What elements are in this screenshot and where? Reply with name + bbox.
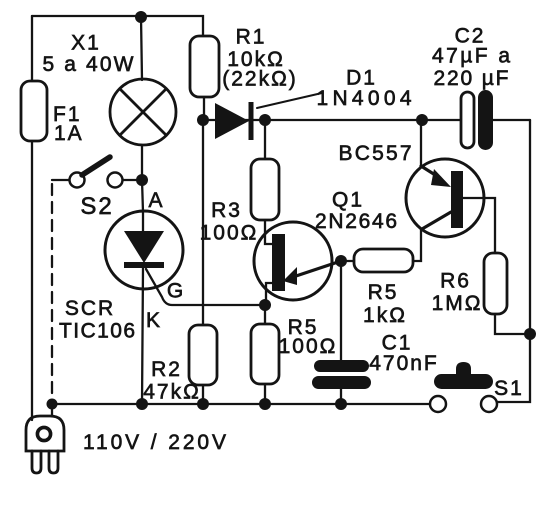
node Q1 B1 junction: [259, 299, 271, 311]
svg-text:X1: X1: [71, 32, 101, 55]
node BC557 emitter junction: [416, 114, 428, 126]
wire R2 bottom lead: [202, 385, 204, 405]
wire R5b bottom lead: [264, 384, 266, 405]
resistor R3: [251, 159, 279, 220]
node Q1 emitter junction: [335, 255, 347, 267]
svg-text:5 a 40W: 5 a 40W: [43, 53, 136, 76]
wire lamp top lead: [141, 17, 142, 80]
svg-text:(22kΩ): (22kΩ): [222, 68, 298, 91]
svg-text:BC557: BC557: [339, 142, 414, 165]
node D1 anode: [197, 114, 209, 126]
fuse F1: [21, 81, 47, 141]
svg-text:2N2646: 2N2646: [315, 210, 399, 233]
svg-text:R5: R5: [368, 281, 399, 304]
wire top rail: [32, 16, 203, 36]
resistor R6: [484, 253, 507, 314]
wire plus rail to right rail: [493, 119, 530, 121]
node bus SCR: [136, 398, 148, 410]
node top junction: [135, 11, 147, 23]
wire BC557 base lead: [463, 198, 495, 253]
wire right rail: [497, 120, 530, 402]
wire left rail lower: [31, 141, 33, 420]
resistor R1: [190, 36, 219, 97]
svg-text:G: G: [167, 280, 185, 303]
wire C1 top lead: [340, 261, 342, 361]
wire R5b top lead: [264, 305, 266, 324]
node D1 cathode: [259, 114, 271, 126]
svg-text:R3: R3: [211, 199, 242, 222]
wire lamp bottom lead: [141, 145, 143, 180]
svg-text:K: K: [146, 309, 162, 332]
node bus plug: [47, 399, 58, 410]
wire R1 to D1: [203, 97, 205, 120]
capacitor C1: [312, 360, 371, 389]
capacitor C2: [461, 90, 493, 150]
svg-text:100Ω: 100Ω: [279, 335, 338, 358]
svg-text:S2: S2: [80, 193, 113, 220]
svg-text:1kΩ: 1kΩ: [363, 304, 407, 327]
wire Q1 B1 lead: [266, 283, 272, 305]
wire SCR gate: [146, 269, 264, 305]
switch S2: [52, 157, 136, 188]
wire SCR cathode lead: [142, 268, 143, 405]
svg-text:TIC106: TIC106: [59, 320, 137, 343]
wire bottom bus: [52, 403, 430, 405]
svg-text:220 µF: 220 µF: [434, 67, 511, 90]
svg-text:1A: 1A: [54, 122, 84, 145]
wire R5 to BC557 collector: [413, 229, 421, 261]
wire SCR anode lead: [142, 180, 143, 212]
transistor BC557: [406, 159, 484, 237]
svg-text:1MΩ: 1MΩ: [432, 292, 483, 315]
node bus C1: [335, 398, 347, 410]
svg-text:47kΩ: 47kΩ: [143, 381, 201, 404]
svg-text:47µF a: 47µF a: [432, 45, 512, 68]
svg-text:R1: R1: [236, 26, 267, 49]
lamp X1: [110, 79, 176, 145]
svg-text:A: A: [148, 189, 164, 212]
svg-text:Q1: Q1: [332, 189, 364, 212]
svg-text:470nF: 470nF: [369, 352, 439, 375]
svg-text:R6: R6: [440, 270, 471, 293]
resistor R5 100: [251, 324, 279, 384]
wire R3 top lead: [264, 120, 266, 159]
node right rail junction: [524, 328, 536, 340]
wire plus rail horizontal: [203, 119, 461, 121]
pushbutton S1: [430, 362, 497, 412]
wire BC557 emitter lead: [420, 120, 422, 166]
node S2 junction: [136, 174, 148, 186]
svg-text:R2: R2: [151, 358, 182, 381]
transistor Q1 2N2646: [254, 222, 341, 300]
svg-text:100Ω: 100Ω: [200, 222, 259, 245]
diode D1: [215, 93, 322, 140]
wire R6 bottom lead: [495, 314, 528, 334]
node bus R2: [197, 398, 209, 410]
svg-text:110V / 220V: 110V / 220V: [83, 431, 228, 454]
wire R3 to Q1 B2: [265, 220, 273, 244]
resistor R5 1k: [341, 249, 413, 272]
SCR TIC106: [105, 211, 183, 289]
node bus R5b: [259, 398, 271, 410]
wire left rail upper: [31, 16, 33, 81]
svg-text:SCR: SCR: [65, 297, 115, 320]
resistor R2: [189, 325, 217, 385]
wire dashed neutral: [51, 184, 53, 400]
wire R1 to R2 vertical: [202, 120, 204, 325]
svg-text:S1: S1: [494, 377, 524, 400]
plug AC: [26, 404, 64, 473]
wire C1 bottom lead: [340, 389, 342, 405]
